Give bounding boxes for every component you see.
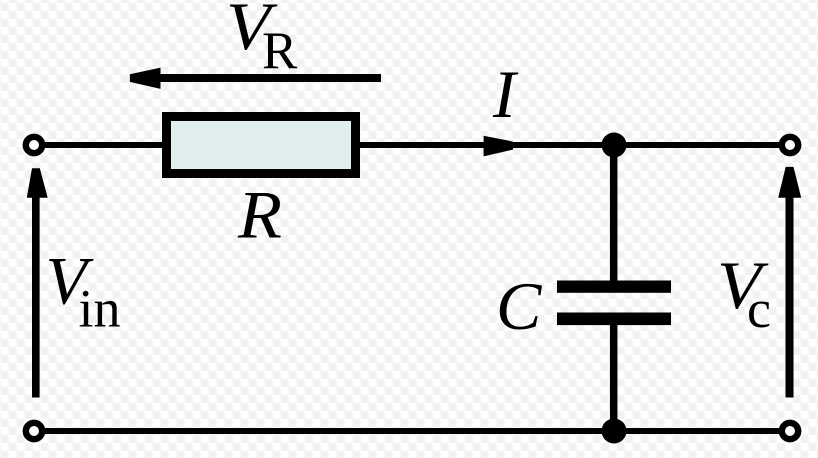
svg-text:in: in	[79, 278, 121, 338]
svg-text:R: R	[262, 22, 298, 80]
svg-text:C: C	[496, 268, 542, 344]
svg-text:I: I	[492, 56, 519, 132]
svg-text:c: c	[747, 279, 771, 339]
svg-text:R: R	[237, 177, 282, 253]
